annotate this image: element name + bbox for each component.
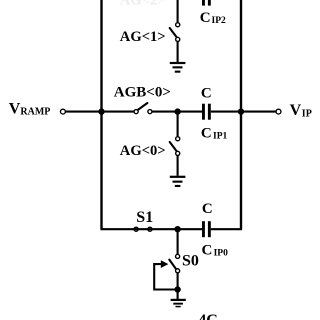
svg-text:C: C (202, 201, 213, 217)
svg-text:V: V (290, 102, 302, 119)
capacitor C_IP2 (plates, top cut off) (202, 0, 211, 6)
node: junction main wire / AG<0> branch (174, 108, 180, 114)
wire: S0 switch down through junction to ground (177, 273, 179, 299)
label C_IP2 (200, 10, 226, 26)
wire: left bus corner to S1 switch (101, 228, 135, 230)
svg-text:C: C (200, 10, 211, 26)
node: junction S0 branch / arrow (174, 286, 180, 292)
ground (AG<0> branch) (170, 176, 186, 187)
node: junction S1 row / S0 branch (174, 226, 180, 232)
wire: AG<0> switch to ground (177, 156, 179, 176)
terminal V_IP (276, 109, 281, 114)
wire: branch from top edge down to AG<1> switch (177, 0, 179, 22)
wire: V_RAMP terminal to AGB<0> switch (66, 111, 134, 113)
terminal V_RAMP (60, 109, 65, 114)
svg-text:AG<0>: AG<0> (120, 143, 166, 159)
wire: capacitor C_IP0 to right bus corner (211, 228, 242, 230)
switch AG<1> (170, 23, 180, 42)
svg-text:AG<2>: AG<2> (120, 0, 166, 9)
wire: capacitor C_IP1 to V_IP terminal (211, 111, 276, 113)
switch AGB<0> (134, 103, 152, 114)
svg-text:IP1: IP1 (213, 132, 228, 142)
wire: left vertical bus (100, 0, 102, 229)
switch S0 (169, 254, 179, 273)
label V_RAMP (9, 101, 51, 118)
svg-text:AG<1>: AG<1> (120, 29, 166, 45)
svg-text:RAMP: RAMP (20, 107, 50, 118)
svg-text:V: V (9, 101, 21, 118)
svg-text:C: C (201, 125, 212, 141)
wire: main wire junction down to AG<0> switch (177, 113, 179, 137)
node: junction main wire / left bus (98, 108, 104, 114)
label C_IP0 (202, 243, 229, 259)
svg-text:S0: S0 (182, 253, 199, 270)
svg-text:C: C (201, 85, 212, 101)
label V_IP (290, 102, 312, 119)
svg-text:C: C (202, 243, 213, 259)
wire: S1 switch to capacitor C_IP0 (152, 228, 202, 230)
svg-text:S1: S1 (136, 209, 153, 226)
node: junction main wire / right bus (238, 108, 244, 114)
switch S1 (closed) (134, 227, 152, 231)
svg-text:IP0: IP0 (214, 249, 229, 259)
svg-text:IP2: IP2 (212, 16, 227, 26)
ground (AG<1> branch) (170, 62, 186, 73)
wire: S1 row junction down to S0 switch (177, 230, 179, 254)
wire: AG<1> switch to ground (177, 42, 179, 62)
label AG<2> (cut off at top edge, faint) (120, 0, 166, 9)
ground (S0 branch) (171, 299, 186, 308)
svg-text:IP: IP (302, 108, 312, 119)
switch AG<0> (170, 137, 180, 156)
capacitor C_IP1 (202, 104, 211, 120)
wire: S0 feedback arrow (154, 260, 177, 289)
wire: AGB<0> switch to capacitor C_IP1 (152, 111, 202, 113)
svg-text:4C: 4C (198, 312, 218, 320)
label C_IP1 (201, 125, 228, 141)
wire: right vertical bus (240, 0, 242, 229)
svg-text:AGB<0>: AGB<0> (114, 85, 171, 101)
capacitor C_IP0 (202, 221, 211, 237)
